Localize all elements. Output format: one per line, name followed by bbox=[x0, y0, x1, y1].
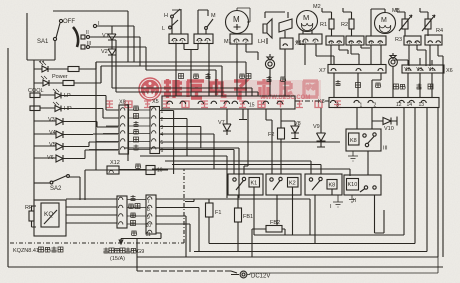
wire mid staircase bbox=[159, 111, 340, 175]
svg-text:9: 9 bbox=[147, 215, 150, 221]
svg-text:X12: X12 bbox=[110, 160, 120, 166]
label X5 pin numbers bbox=[161, 109, 164, 154]
wire strip gap dashdot bbox=[295, 100, 329, 102]
connector C1 lower bbox=[117, 196, 127, 228]
wire X7 X6 downlinks bbox=[334, 73, 381, 97]
svg-text:K8: K8 bbox=[350, 138, 357, 144]
diode V2 bbox=[108, 45, 116, 62]
relay KQ block bbox=[34, 200, 66, 236]
svg-text:V10: V10 bbox=[384, 126, 394, 132]
svg-text:M3: M3 bbox=[392, 8, 400, 14]
watermark big char chang bbox=[281, 80, 292, 97]
fuse FB2 bbox=[252, 226, 285, 258]
svg-text:X7: X7 bbox=[319, 68, 326, 74]
svg-text:X6: X6 bbox=[446, 68, 453, 74]
svg-text:5: 5 bbox=[161, 140, 164, 146]
svg-text:X5: X5 bbox=[152, 99, 159, 105]
svg-text:HP: HP bbox=[64, 106, 72, 112]
relay K10 bbox=[344, 175, 384, 233]
connector R4 box bbox=[425, 35, 443, 257]
svg-text:COOL: COOL bbox=[28, 88, 44, 94]
switch SA1 bbox=[34, 11, 146, 70]
wire DC12V feed bbox=[137, 270, 231, 272]
svg-text:FB2: FB2 bbox=[270, 220, 280, 226]
svg-text:F2: F2 bbox=[268, 132, 274, 138]
svg-text:R3: R3 bbox=[395, 37, 402, 43]
connector X10 box2 bbox=[194, 34, 213, 44]
svg-text:DC12V: DC12V bbox=[251, 274, 270, 280]
svg-text:V8: V8 bbox=[294, 121, 301, 127]
dashed enclosure boundary bbox=[10, 169, 184, 243]
connector X6 strip bbox=[402, 65, 444, 73]
buzzer HA2 bbox=[389, 53, 398, 98]
svg-text:7: 7 bbox=[147, 199, 150, 205]
label C1 wire colors bbox=[129, 195, 141, 236]
fuse F1 bbox=[206, 199, 214, 244]
wire bus C bbox=[194, 108, 427, 252]
resistor + LED HP row bbox=[30, 102, 118, 118]
diode V6 bbox=[34, 150, 118, 162]
ground I bbox=[333, 195, 343, 207]
svg-text:Y1: Y1 bbox=[328, 40, 334, 45]
svg-text:V9: V9 bbox=[313, 124, 320, 130]
svg-text:3: 3 bbox=[161, 125, 164, 131]
svg-text:Y2: Y2 bbox=[172, 39, 178, 44]
motor M3 bbox=[371, 9, 396, 36]
svg-text:12: 12 bbox=[396, 102, 402, 108]
svg-text:V7: V7 bbox=[218, 120, 225, 126]
svg-text:11: 11 bbox=[146, 232, 151, 238]
sensor R4 bbox=[420, 8, 435, 36]
relay K8 bbox=[305, 174, 342, 244]
label X12 brown bbox=[136, 164, 141, 169]
connector R2 box bbox=[346, 36, 370, 65]
motor M1 bbox=[226, 8, 251, 34]
svg-text:V1: V1 bbox=[102, 33, 109, 39]
svg-text:M2: M2 bbox=[313, 4, 321, 10]
svg-text:OFF: OFF bbox=[63, 19, 75, 25]
diode V1 bbox=[108, 26, 116, 45]
switch H/L blower bbox=[169, 9, 181, 34]
svg-text:II: II bbox=[86, 30, 89, 36]
svg-text:14: 14 bbox=[407, 102, 413, 108]
connector C2 lower bbox=[146, 195, 156, 234]
wire C1 C2 rows bbox=[127, 200, 146, 225]
svg-text:Power: Power bbox=[52, 74, 68, 80]
wire X8 X5 rows bbox=[129, 110, 151, 150]
speaker LH bbox=[263, 12, 285, 44]
connector strip A bbox=[162, 96, 295, 109]
watermark big char wang bbox=[303, 81, 318, 97]
svg-text:Y1: Y1 bbox=[368, 40, 374, 45]
svg-text:K10: K10 bbox=[348, 182, 358, 188]
wire left outer vertical bus bbox=[8, 13, 34, 267]
switch M mode bbox=[198, 10, 213, 34]
svg-text:1: 1 bbox=[360, 103, 363, 109]
watermark logo circle bbox=[139, 78, 161, 100]
svg-text:Y2: Y2 bbox=[404, 67, 410, 73]
svg-text:3: 3 bbox=[336, 103, 339, 109]
diode V3 bbox=[34, 118, 118, 127]
svg-text:K8: K8 bbox=[329, 183, 336, 189]
watermark big char ku bbox=[187, 81, 204, 98]
connector M1 box bbox=[230, 34, 258, 96]
connector M3 box bbox=[366, 36, 386, 65]
watermark big char wei bbox=[164, 79, 182, 98]
svg-text:V5: V5 bbox=[49, 142, 56, 148]
power DC12V bbox=[240, 257, 438, 278]
watermark big char shi bbox=[257, 79, 271, 98]
ground stub bbox=[239, 109, 247, 120]
LED Power row bbox=[34, 61, 96, 72]
svg-text:4: 4 bbox=[161, 132, 164, 138]
svg-text:KQZN8.41: KQZN8.41 bbox=[13, 248, 39, 254]
svg-text:10: 10 bbox=[146, 223, 152, 229]
svg-text:8: 8 bbox=[147, 207, 150, 213]
svg-text:X8: X8 bbox=[119, 100, 126, 106]
label right wire colors bbox=[336, 80, 434, 90]
connector strip B K3 bbox=[329, 98, 439, 108]
wire box1 box2 link bbox=[176, 44, 209, 97]
label to central control box G9 bbox=[104, 248, 145, 263]
svg-text:R1: R1 bbox=[320, 22, 327, 28]
svg-text:K3: K3 bbox=[318, 99, 325, 105]
label C2 pin numbers bbox=[146, 199, 152, 238]
svg-text:V2: V2 bbox=[101, 49, 108, 55]
svg-text:1: 1 bbox=[161, 109, 164, 115]
svg-text:2: 2 bbox=[374, 103, 377, 109]
relay K1 bbox=[228, 174, 263, 235]
svg-text:Y2: Y2 bbox=[197, 39, 203, 44]
resistor R2 bbox=[343, 8, 354, 36]
svg-text:F1: F1 bbox=[215, 210, 221, 216]
label KQZN8.41 system bbox=[13, 247, 63, 255]
svg-text:15: 15 bbox=[249, 103, 255, 109]
svg-text:M: M bbox=[381, 17, 387, 24]
connector R3 box bbox=[404, 36, 426, 66]
wire KQ outputs bbox=[66, 199, 117, 223]
wire C2 red return bbox=[119, 239, 146, 272]
svg-text:M: M bbox=[211, 13, 216, 19]
diode V4 bbox=[34, 131, 118, 138]
svg-text:X7: X7 bbox=[296, 39, 302, 44]
wire X8 left entries bbox=[89, 110, 119, 150]
svg-text:V4: V4 bbox=[49, 130, 56, 136]
svg-text:13: 13 bbox=[419, 102, 425, 108]
svg-text:Y1: Y1 bbox=[428, 67, 434, 73]
connector M2 box bbox=[299, 34, 334, 65]
svg-text:H: H bbox=[164, 13, 168, 19]
diode V9 bbox=[317, 108, 326, 147]
svg-text:6: 6 bbox=[161, 148, 164, 154]
svg-text:LP: LP bbox=[64, 93, 71, 99]
diode V10 bbox=[372, 117, 397, 126]
svg-text:M1: M1 bbox=[224, 39, 232, 45]
buzzer HA1 bbox=[265, 54, 274, 96]
wire horizontal buses SA1 to right bbox=[96, 62, 246, 96]
svg-text:M: M bbox=[233, 15, 240, 24]
wire strip A risers down bbox=[239, 109, 272, 174]
label pin marks bbox=[172, 39, 418, 46]
svg-text:FB1: FB1 bbox=[243, 214, 253, 220]
svg-text:II: II bbox=[353, 198, 357, 204]
label X8 wire colors bbox=[134, 106, 139, 151]
svg-text:Y1: Y1 bbox=[406, 40, 412, 45]
LED row 2 bbox=[34, 66, 118, 86]
svg-text:10: 10 bbox=[157, 168, 163, 174]
wire bus upper mid bbox=[112, 40, 258, 96]
wire relay feed lines bbox=[124, 148, 350, 198]
svg-text:SA1: SA1 bbox=[37, 39, 49, 45]
connector X5 bbox=[150, 107, 160, 154]
fuse F2 bbox=[278, 109, 285, 174]
svg-text:2: 2 bbox=[161, 117, 164, 123]
resistor R1 bbox=[322, 8, 334, 36]
svg-text:R4: R4 bbox=[436, 28, 443, 34]
svg-text:G9: G9 bbox=[137, 249, 144, 255]
resistor COOL + LED LP row bbox=[30, 89, 118, 110]
wire bus B bbox=[209, 108, 415, 244]
svg-text:LH: LH bbox=[258, 39, 265, 45]
watermark big char dian bbox=[211, 79, 227, 96]
fuse FB1 bbox=[235, 208, 242, 252]
switch SA2 bbox=[34, 170, 168, 200]
svg-text:Y1: Y1 bbox=[233, 39, 239, 44]
wire bus 199 step bbox=[185, 199, 194, 202]
svg-text:L: L bbox=[162, 26, 165, 32]
watermark red underlay band bbox=[161, 80, 321, 99]
svg-text:Y: Y bbox=[415, 40, 418, 45]
watermark small char row bbox=[106, 101, 341, 108]
wire bus E bbox=[8, 266, 443, 268]
svg-text:SA2: SA2 bbox=[50, 186, 62, 192]
relay K2 bbox=[266, 174, 301, 235]
relay K9 upper bbox=[346, 108, 381, 175]
svg-text:K2: K2 bbox=[289, 181, 296, 187]
connector R1 box bbox=[326, 36, 348, 65]
diode V5 bbox=[34, 142, 118, 150]
svg-text:V3: V3 bbox=[48, 117, 55, 123]
connector X9 box1 bbox=[169, 34, 188, 44]
diode V8 bbox=[281, 121, 299, 139]
diode V7 under strip bbox=[223, 109, 231, 135]
wire C2 outputs bbox=[146, 199, 310, 257]
svg-text:Y1: Y1 bbox=[348, 40, 354, 45]
svg-text:M: M bbox=[303, 13, 309, 22]
wire bus A bbox=[254, 108, 404, 235]
relay X11 coil bbox=[279, 12, 293, 96]
connector X7 strip bbox=[328, 65, 386, 74]
potentiometer RP bbox=[29, 206, 36, 227]
svg-text:(15/A): (15/A) bbox=[110, 256, 125, 262]
sensor R3 bbox=[397, 8, 412, 36]
svg-text:R2: R2 bbox=[341, 22, 348, 28]
svg-text:KQ: KQ bbox=[44, 211, 53, 218]
label midband wire colors bbox=[179, 73, 286, 82]
connector X8 bbox=[119, 105, 129, 154]
svg-text:Y3: Y3 bbox=[416, 67, 422, 73]
svg-text:RP: RP bbox=[25, 205, 33, 211]
svg-text:V6: V6 bbox=[47, 155, 54, 161]
motor M2 bbox=[297, 11, 318, 35]
wire bus D bbox=[137, 108, 438, 257]
svg-text:III: III bbox=[87, 41, 91, 47]
svg-text:III: III bbox=[383, 146, 388, 152]
watermark big char zi bbox=[234, 81, 247, 98]
svg-text:K1: K1 bbox=[251, 181, 258, 187]
connector X12 bbox=[96, 62, 155, 175]
